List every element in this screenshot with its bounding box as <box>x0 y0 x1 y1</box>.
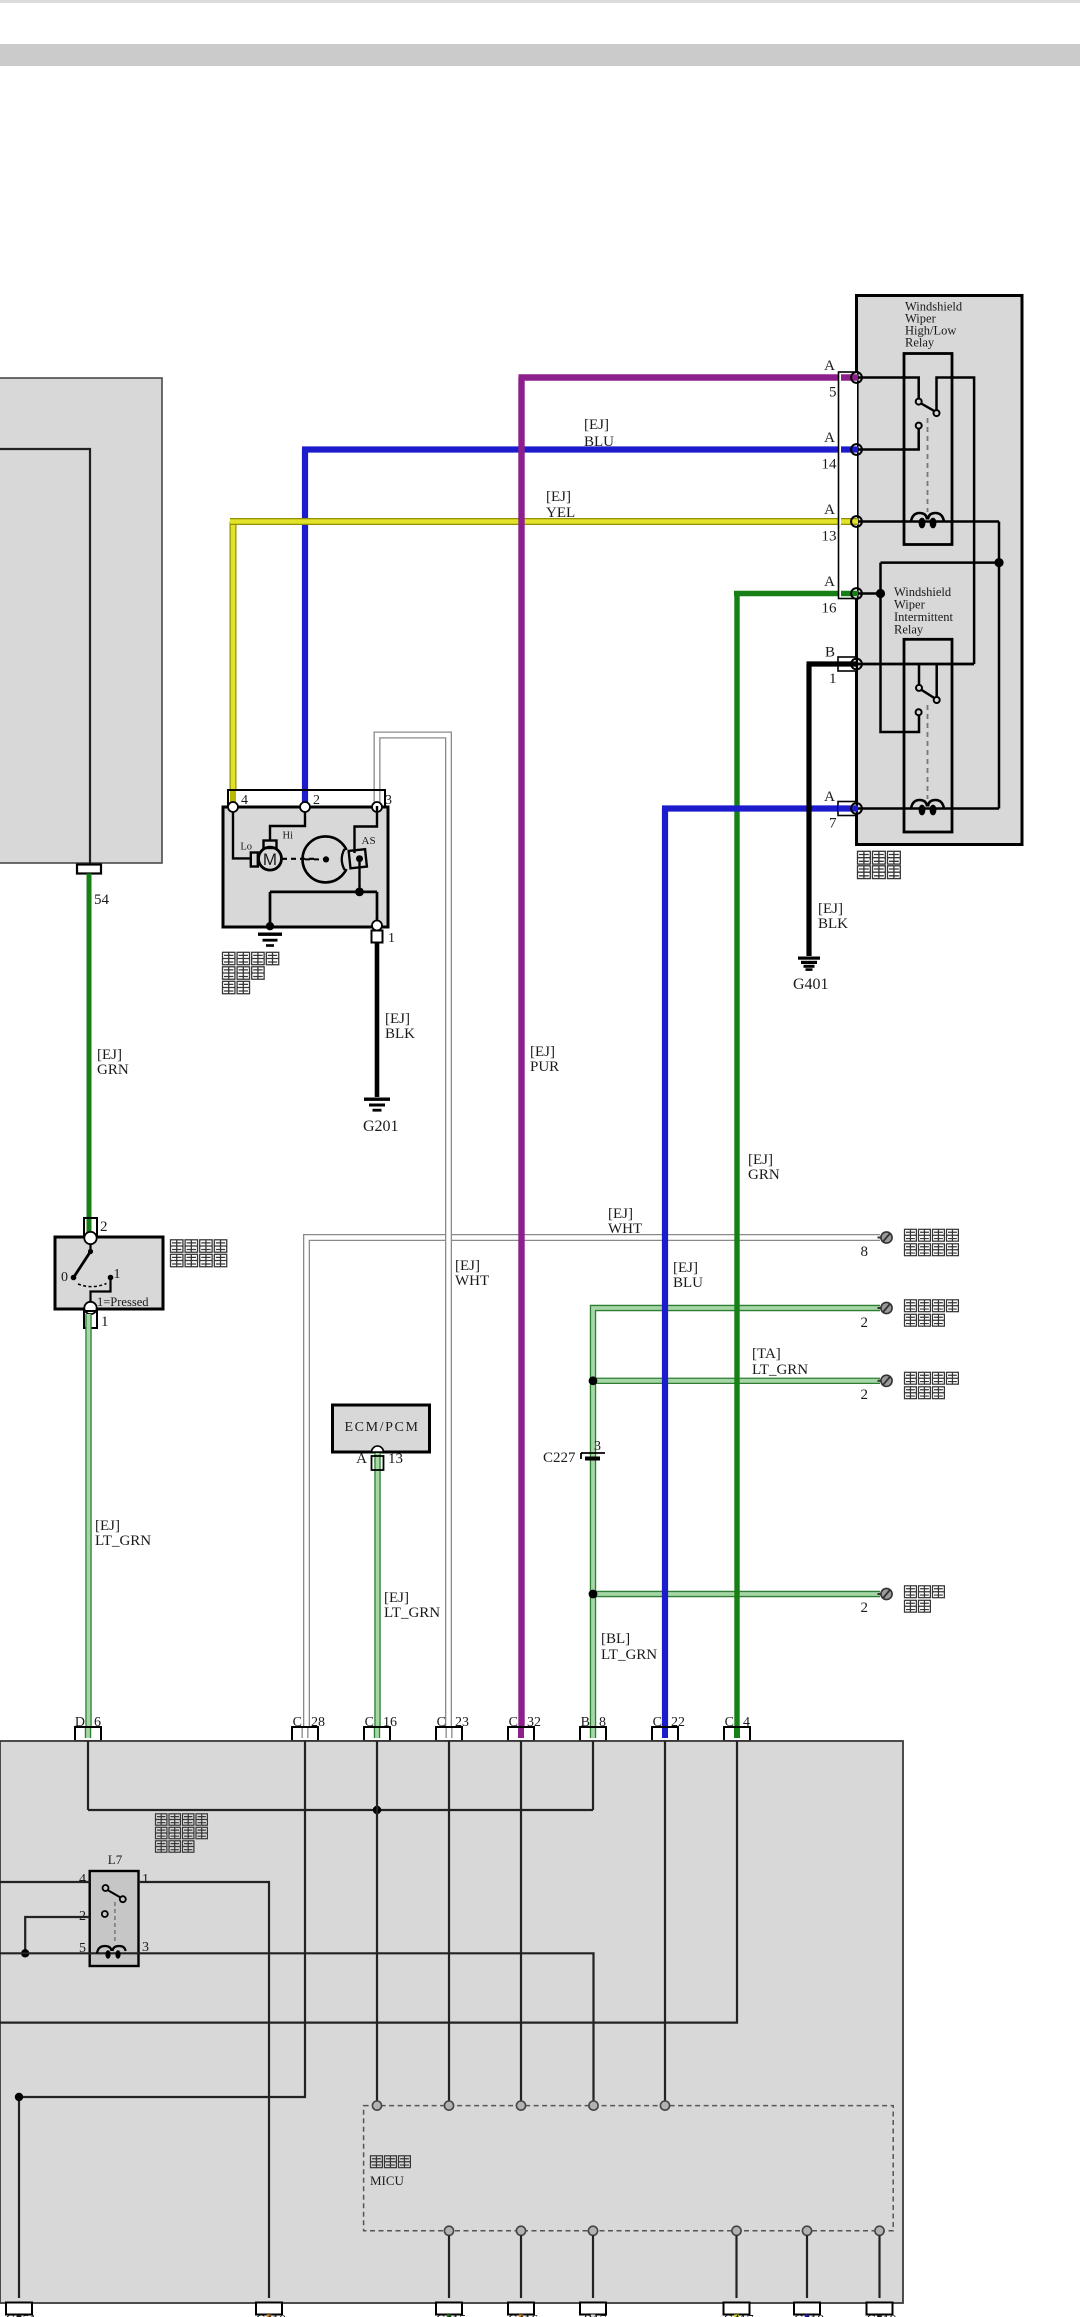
svg-text:BLU: BLU <box>673 1275 703 1291</box>
svg-text:D: D <box>75 1715 85 1730</box>
svg-text:14: 14 <box>822 457 838 473</box>
svg-text:3: 3 <box>385 793 392 808</box>
svg-text:B17: B17 <box>583 2313 606 2317</box>
svg-text:[EJ]: [EJ] <box>95 1518 120 1534</box>
svg-text:[EJ]: [EJ] <box>385 1011 410 1027</box>
svg-text:Relay: Relay <box>894 623 924 637</box>
svg-text:22: 22 <box>671 1715 685 1730</box>
svg-text:23: 23 <box>455 1715 469 1730</box>
svg-text:0: 0 <box>61 1270 68 1285</box>
svg-text:8: 8 <box>599 1715 606 1730</box>
svg-text:C419: C419 <box>866 2313 896 2317</box>
svg-text:16: 16 <box>822 601 838 617</box>
svg-text:[EJ]: [EJ] <box>530 1044 555 1060</box>
svg-text:4: 4 <box>79 1872 86 1887</box>
svg-text:1: 1 <box>101 1314 109 1330</box>
svg-text:[EJ]: [EJ] <box>584 417 609 433</box>
svg-text:[EJ]: [EJ] <box>384 1590 409 1606</box>
svg-text:C415: C415 <box>436 2313 466 2317</box>
svg-text:L7: L7 <box>108 1852 123 1867</box>
svg-text:Relay: Relay <box>905 336 935 350</box>
svg-text:8: 8 <box>861 1244 869 1260</box>
svg-text:[EJ]: [EJ] <box>673 1260 698 1276</box>
svg-text:[EJ]: [EJ] <box>455 1258 480 1274</box>
svg-text:C416: C416 <box>508 2313 538 2317</box>
svg-text:2: 2 <box>79 1909 86 1924</box>
svg-text:C227: C227 <box>543 1450 576 1466</box>
svg-text:Hi: Hi <box>283 831 294 842</box>
svg-text:13: 13 <box>388 1451 403 1467</box>
svg-text:A: A <box>824 574 835 590</box>
svg-text:2: 2 <box>313 793 320 808</box>
svg-text:A: A <box>824 430 835 446</box>
svg-text:[EJ]: [EJ] <box>608 1206 633 1222</box>
svg-text:1: 1 <box>388 931 395 946</box>
svg-text:LT_GRN: LT_GRN <box>95 1533 151 1549</box>
svg-text:AS: AS <box>362 835 376 847</box>
svg-text:4: 4 <box>743 1715 750 1730</box>
svg-text:G201: G201 <box>363 1118 399 1135</box>
svg-text:GRN: GRN <box>748 1167 780 1183</box>
svg-text:C417: C417 <box>723 2313 753 2317</box>
svg-text:[TA]: [TA] <box>752 1346 781 1362</box>
svg-text:A: A <box>824 789 835 805</box>
svg-text:BLU: BLU <box>584 434 614 450</box>
svg-text:5: 5 <box>829 385 837 401</box>
svg-text:2: 2 <box>861 1600 869 1616</box>
svg-text:B: B <box>825 645 835 661</box>
svg-text:[EJ]: [EJ] <box>748 1152 773 1168</box>
svg-text:[EJ]: [EJ] <box>818 901 843 917</box>
svg-text:ECM/PCM: ECM/PCM <box>345 1420 420 1435</box>
svg-text:2: 2 <box>861 1387 869 1403</box>
svg-text:Lo: Lo <box>240 842 252 853</box>
svg-text:GRN: GRN <box>97 1062 129 1078</box>
svg-text:BLK: BLK <box>385 1026 415 1042</box>
svg-text:1=Pressed: 1=Pressed <box>97 1295 149 1309</box>
svg-text:A: A <box>824 502 835 518</box>
svg-text:3: 3 <box>142 1940 149 1955</box>
svg-text:C: C <box>725 1715 734 1730</box>
svg-text:C: C <box>365 1715 374 1730</box>
svg-text:A: A <box>356 1451 367 1467</box>
svg-text:1: 1 <box>114 1267 121 1282</box>
svg-text:LT_GRN: LT_GRN <box>752 1362 808 1378</box>
svg-text:LT_GRN: LT_GRN <box>601 1647 657 1663</box>
svg-text:32: 32 <box>527 1715 541 1730</box>
svg-text:[EJ]: [EJ] <box>97 1047 122 1063</box>
svg-text:2: 2 <box>100 1219 108 1235</box>
svg-text:16: 16 <box>383 1715 397 1730</box>
svg-text:LT_GRN: LT_GRN <box>384 1605 440 1621</box>
svg-text:M: M <box>263 850 277 869</box>
svg-text:[BL]: [BL] <box>601 1631 630 1647</box>
svg-text:C418: C418 <box>794 2313 824 2317</box>
svg-text:WHT: WHT <box>455 1273 489 1289</box>
svg-text:MICU: MICU <box>370 2173 405 2188</box>
svg-text:YEL: YEL <box>546 505 575 521</box>
svg-text:13: 13 <box>822 529 837 545</box>
svg-text:1: 1 <box>142 1872 149 1887</box>
svg-text:A: A <box>824 358 835 374</box>
svg-text:C: C <box>509 1715 518 1730</box>
svg-text:PUR: PUR <box>530 1059 559 1075</box>
svg-text:3: 3 <box>594 1439 601 1454</box>
svg-text:G551: G551 <box>5 2313 36 2317</box>
svg-text:[EJ]: [EJ] <box>546 489 571 505</box>
svg-text:28: 28 <box>311 1715 325 1730</box>
svg-text:C410: C410 <box>256 2313 286 2317</box>
svg-text:5: 5 <box>79 1941 86 1956</box>
svg-text:C: C <box>293 1715 302 1730</box>
svg-text:C: C <box>437 1715 446 1730</box>
svg-text:2: 2 <box>861 1315 869 1331</box>
svg-text:WHT: WHT <box>608 1221 642 1237</box>
svg-text:1: 1 <box>829 671 837 687</box>
svg-text:54: 54 <box>94 892 110 908</box>
svg-text:4: 4 <box>241 793 248 808</box>
svg-text:G401: G401 <box>793 976 829 993</box>
svg-text:C: C <box>653 1715 662 1730</box>
svg-text:B: B <box>581 1715 590 1730</box>
svg-text:6: 6 <box>94 1715 101 1730</box>
svg-text:BLK: BLK <box>818 916 848 932</box>
svg-text:7: 7 <box>829 816 837 832</box>
